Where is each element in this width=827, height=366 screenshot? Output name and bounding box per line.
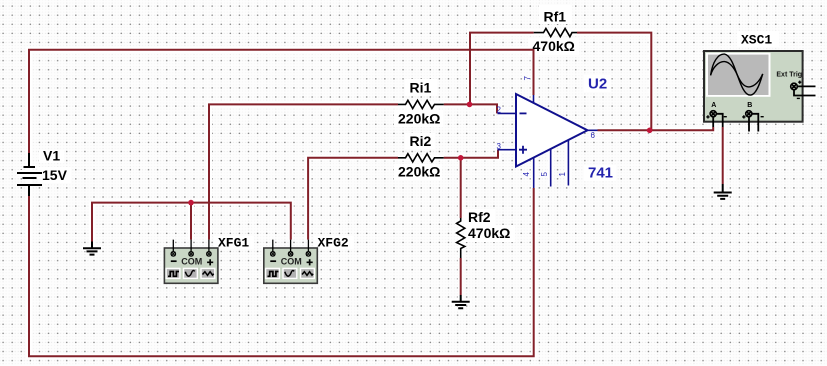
svg-text:741: 741 — [588, 165, 613, 182]
svg-text:XFG1: XFG1 — [218, 236, 249, 251]
svg-text:B: B — [747, 102, 752, 109]
svg-text:Rf2: Rf2 — [468, 209, 491, 225]
svg-text:Ext Trig: Ext Trig — [776, 72, 802, 79]
svg-text:Ri2: Ri2 — [410, 133, 432, 149]
svg-text:U2: U2 — [588, 76, 607, 93]
svg-text:A: A — [711, 102, 716, 109]
svg-text:3: 3 — [497, 142, 502, 151]
svg-text:470kΩ: 470kΩ — [468, 225, 510, 241]
svg-text:2: 2 — [497, 106, 502, 115]
svg-text:7: 7 — [523, 76, 532, 81]
svg-text:V1: V1 — [43, 148, 60, 164]
svg-text:XSC1: XSC1 — [741, 33, 772, 48]
svg-text:6: 6 — [591, 131, 596, 140]
svg-text:XFG2: XFG2 — [318, 236, 349, 251]
svg-text:Rf1: Rf1 — [544, 9, 567, 25]
svg-text:4: 4 — [522, 172, 531, 177]
svg-text:470kΩ: 470kΩ — [533, 38, 575, 54]
svg-text:Ri1: Ri1 — [410, 80, 432, 96]
svg-text:15V: 15V — [42, 167, 68, 183]
svg-text:220kΩ: 220kΩ — [398, 111, 440, 127]
svg-text:COM: COM — [181, 256, 202, 266]
svg-text:220kΩ: 220kΩ — [398, 164, 440, 180]
svg-text:1: 1 — [558, 172, 567, 177]
svg-text:5: 5 — [540, 172, 549, 177]
